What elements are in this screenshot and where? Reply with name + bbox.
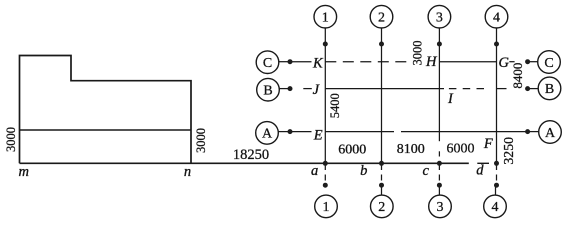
svg-text:G: G (498, 55, 509, 71)
row B: solid J col1 to col3+ (325, 88, 444, 90)
axis circle 1 top (314, 5, 337, 28)
column line 2 (381, 28, 383, 163)
column line 3 (438, 28, 440, 141)
building inner line (20, 129, 192, 131)
row C right dot (525, 59, 530, 64)
svg-text:C: C (263, 56, 272, 71)
svg-text:H: H (425, 54, 438, 70)
axis circle A right (539, 121, 562, 144)
svg-text:I: I (447, 91, 454, 107)
svg-text:4: 4 (493, 11, 500, 26)
axis circle 4 top (485, 5, 508, 28)
axis circle 2 top (370, 5, 393, 28)
top dot col2 (379, 42, 384, 47)
tick dot to circle 3 bottom (438, 185, 440, 195)
base junction dot col2 (379, 161, 384, 166)
lower dot col1 (323, 183, 328, 188)
column line 4 (496, 28, 498, 163)
axis circle 1 bottom (315, 195, 338, 218)
tick dot to circle 4 bottom (495, 185, 497, 195)
svg-text:8400: 8400 (510, 63, 525, 89)
top dot col1 (323, 42, 328, 47)
row C: stub from circle C left (279, 61, 290, 63)
column 4 lower dashed stub (496, 164, 498, 181)
base junction dot col4 (494, 161, 499, 166)
svg-text:4: 4 (492, 200, 499, 215)
row B: dashed to col4 (449, 88, 486, 90)
tick dot to circle 2 bottom (381, 185, 383, 195)
axis circle C right (538, 51, 561, 74)
svg-text:A: A (262, 127, 273, 142)
svg-text:E: E (313, 127, 323, 143)
svg-text:A: A (545, 126, 556, 141)
row C: segment dot to K (290, 61, 312, 63)
svg-text:1: 1 (323, 200, 330, 215)
row C: dash after G (509, 61, 514, 63)
svg-text:6000: 6000 (338, 142, 366, 157)
axis circle A left (256, 122, 279, 145)
base junction dot col1 (323, 161, 328, 166)
lower dot col4 (494, 183, 499, 188)
column line 3 lower dash above base (438, 151, 440, 156)
axis circle B left (257, 78, 280, 101)
row C left dot (288, 59, 293, 64)
row B left dot (288, 86, 293, 91)
column 2 lower dashed stub (381, 164, 383, 181)
svg-text:3000: 3000 (410, 41, 424, 66)
column 3 lower dashed stub (438, 164, 440, 181)
svg-text:3000: 3000 (4, 127, 18, 152)
svg-text:F: F (483, 136, 493, 152)
row A left dot (288, 129, 293, 134)
row B: stub to circle B right (528, 88, 538, 90)
axis circle 3 bottom (429, 195, 452, 218)
svg-text:a: a (311, 163, 318, 179)
row C: solid H to G (col3-col4) (439, 61, 496, 63)
svg-text:3250: 3250 (501, 137, 516, 165)
svg-text:2: 2 (378, 11, 385, 26)
row C: stub to circle C right (528, 61, 538, 63)
row A: stub to circle A right (528, 131, 539, 133)
axis circle B right (538, 77, 561, 100)
row A: segment dot to E (290, 131, 312, 133)
axis circle 4 bottom (484, 195, 507, 218)
svg-text:n: n (184, 164, 191, 180)
svg-text:8100: 8100 (397, 142, 425, 157)
svg-text:3: 3 (436, 11, 443, 26)
svg-text:2: 2 (378, 200, 385, 215)
svg-text:1: 1 (322, 11, 329, 26)
svg-text:K: K (312, 56, 324, 72)
svg-text:C: C (544, 56, 553, 71)
row B: stub right of col4 (497, 88, 507, 90)
svg-text:c: c (422, 163, 429, 179)
svg-text:3: 3 (437, 200, 444, 215)
svg-text:B: B (545, 82, 554, 97)
building outline (left plan) (20, 56, 192, 164)
svg-text:m: m (19, 164, 29, 180)
svg-text:18250: 18250 (233, 147, 269, 163)
top dot col4 (494, 42, 499, 47)
svg-text:3000: 3000 (194, 128, 208, 153)
svg-text:b: b (360, 163, 367, 179)
svg-text:5400: 5400 (328, 93, 342, 118)
row C: dashed K to H (325, 61, 409, 63)
row B: dash before J (303, 88, 312, 90)
row B: stub from circle B left (279, 88, 290, 90)
lower dot col2 (379, 183, 384, 188)
base junction dot col3 (437, 161, 442, 166)
axis circle 3 top (428, 5, 451, 28)
svg-text:J: J (313, 82, 320, 98)
svg-text:d: d (476, 163, 484, 179)
top dot col3 (437, 42, 442, 47)
svg-text:B: B (263, 84, 272, 99)
column line 1 (324, 28, 326, 163)
bottom base line dash c-d (477, 162, 489, 164)
lower dot col3 (437, 183, 442, 188)
axis circle 2 bottom (371, 195, 394, 218)
bottom base line m-n-a-b-c (20, 162, 469, 164)
svg-text:6000: 6000 (447, 141, 475, 156)
row A: stub from circle A left (278, 131, 290, 133)
row B right dot (525, 86, 530, 91)
column 1 lower dashed stub (324, 164, 326, 181)
axis circle C left (256, 51, 279, 74)
row A: solid after break to dot right (401, 131, 528, 133)
row A: solid E col1 to break (325, 131, 394, 133)
row A right dot (525, 129, 530, 134)
